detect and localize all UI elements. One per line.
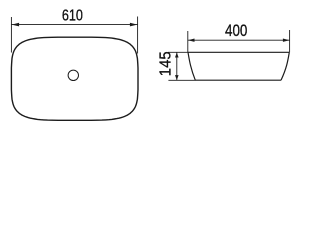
basin side view bottom xyxy=(195,79,281,81)
basin side view right wall xyxy=(281,52,289,80)
basin side view left wall xyxy=(188,52,195,80)
dim 400 extension line right xyxy=(289,30,291,52)
dim 610 arrow right xyxy=(130,23,138,27)
dim 400 arrow right xyxy=(283,39,290,42)
dim 145 arrow down xyxy=(175,75,179,80)
dim 145 extension line top xyxy=(168,51,188,53)
dim 610 arrow left xyxy=(12,23,20,27)
svg-text:400: 400 xyxy=(225,22,247,41)
dim 400 line xyxy=(188,39,290,41)
dim 145 extension line bottom xyxy=(168,79,195,81)
dim 610 extension line left xyxy=(10,17,12,53)
svg-text:145: 145 xyxy=(157,51,175,76)
basin side view rim xyxy=(188,51,289,53)
svg-text:610: 610 xyxy=(62,7,83,25)
basin plan view outline xyxy=(11,37,138,120)
drain hole xyxy=(68,70,78,80)
dim 610 extension line right xyxy=(137,17,139,54)
dim 145 line xyxy=(176,52,178,80)
dim 610 line xyxy=(11,24,137,26)
dim 400 arrow left xyxy=(188,39,195,42)
dim 400 extension line left xyxy=(187,31,189,52)
dim 145 arrow up xyxy=(175,53,179,58)
